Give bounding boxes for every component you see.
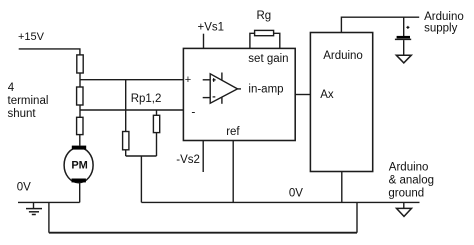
svg-text:set gain: set gain <box>248 53 288 65</box>
wire Arduino ground <box>341 172 343 203</box>
pin ref to 0V rail <box>232 141 234 203</box>
wire up to analog ground rail <box>356 202 358 232</box>
label - input pin <box>191 105 195 119</box>
op-amp triangle <box>203 73 241 104</box>
resistor shunt R2 <box>77 87 83 105</box>
node 0V left <box>17 182 31 194</box>
pin +Vs1 <box>198 22 225 49</box>
ground supply triangle <box>396 55 411 63</box>
in-amp U1 box <box>183 48 295 140</box>
svg-text:ground: ground <box>388 187 424 199</box>
Arduino box <box>310 33 372 172</box>
svg-text:PM: PM <box>71 159 88 171</box>
svg-text:terminal: terminal <box>8 95 49 107</box>
svg-text:in-amp: in-amp <box>248 84 283 96</box>
svg-text:Ax: Ax <box>320 89 334 101</box>
capacitor C1 <box>395 17 411 55</box>
wire R1-R2 link <box>79 73 81 87</box>
resistor shunt R3 <box>77 117 83 134</box>
wire +15V rail <box>19 49 80 55</box>
label ref <box>226 126 240 138</box>
wire R2-R3 link <box>79 105 81 117</box>
svg-text:0V: 0V <box>17 182 31 194</box>
ground analog triangle <box>397 202 412 216</box>
svg-text:+15V: +15V <box>18 31 45 43</box>
label Arduino analog ground <box>388 161 434 199</box>
svg-text:4: 4 <box>8 82 15 94</box>
label Arduino supply <box>424 11 464 34</box>
svg-text:Rp1,2: Rp1,2 <box>131 93 162 105</box>
wire in-amp output to Arduino <box>295 94 310 96</box>
svg-text:supply: supply <box>424 23 457 35</box>
svg-text:ref: ref <box>226 126 240 138</box>
svg-text:Arduino: Arduino <box>323 50 363 62</box>
label Arduino <box>323 50 363 62</box>
motor PM <box>64 146 93 183</box>
resistor Rg <box>250 10 280 49</box>
wire 0V rail left <box>18 201 80 203</box>
svg-text:Rg: Rg <box>257 10 272 22</box>
svg-text:+: + <box>185 74 191 86</box>
svg-text:Arduino: Arduino <box>424 11 464 23</box>
resistor Rp2 <box>153 110 159 156</box>
wire Rp junction to 0V rail <box>140 156 142 202</box>
pin -Vs2 <box>176 141 203 173</box>
resistor Rp1 <box>123 80 129 156</box>
wire Arduino supply <box>341 17 419 32</box>
wire motor to 0V <box>79 182 81 202</box>
wire bottom ground link <box>49 232 357 234</box>
wire - sense tap <box>80 109 183 111</box>
label in-amp <box>248 84 283 96</box>
wire down from 0V rail <box>48 202 50 232</box>
svg-text:+Vs1: +Vs1 <box>198 22 225 34</box>
wire R3 to motor <box>79 135 81 146</box>
node +15V <box>18 31 45 43</box>
ground earth symbol <box>26 202 42 214</box>
wire Rp bottoms join <box>126 155 157 157</box>
resistor shunt R1 <box>77 55 83 73</box>
svg-text:-Vs2: -Vs2 <box>176 154 200 166</box>
svg-text:shunt: shunt <box>8 108 37 120</box>
svg-text:-: - <box>191 105 195 119</box>
svg-text:& analog: & analog <box>389 174 434 186</box>
label set gain <box>248 53 288 65</box>
label + input pin <box>185 74 191 86</box>
wire + sense tap <box>80 79 183 81</box>
wire 0V rail right <box>141 201 419 203</box>
svg-text:Arduino: Arduino <box>389 161 429 173</box>
svg-text:0V: 0V <box>289 188 303 200</box>
label Rp1,2 <box>131 93 162 105</box>
label Ax <box>320 89 334 101</box>
node 0V right <box>289 188 303 200</box>
label 4 terminal shunt <box>8 82 49 120</box>
